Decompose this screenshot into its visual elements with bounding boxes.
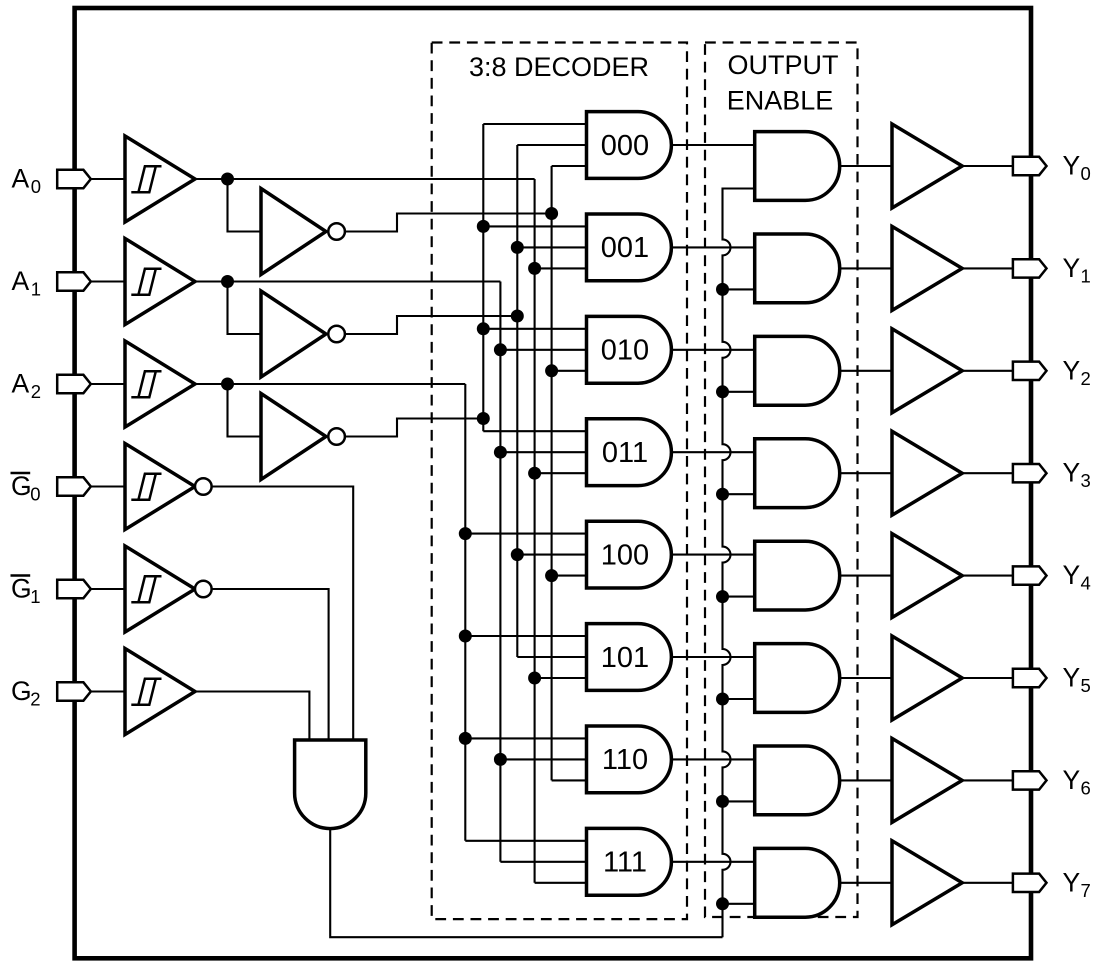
rail A2N vertical — [482, 124, 484, 431]
and-gate decoder 100 — [587, 521, 672, 588]
and-gate output-enable Y7 — [755, 848, 840, 917]
output pin Y1 — [1013, 259, 1047, 277]
wire decoder 000 output — [671, 144, 754, 146]
svg-text:011: 011 — [602, 437, 648, 469]
wire A1 schmitt output — [195, 280, 228, 282]
buffer Y6 — [892, 738, 962, 822]
wire rail A1 tap stub — [500, 349, 586, 351]
wire A0 true to rail — [228, 178, 535, 180]
and-gate output-enable Y4 — [755, 541, 840, 610]
input pin G0 — [57, 477, 91, 495]
svg-text:Y: Y — [1063, 560, 1081, 590]
wire buffer Y1 to pin — [962, 267, 1013, 269]
svg-text:Y: Y — [1063, 253, 1081, 283]
junction rail A0 — [528, 467, 541, 480]
wire enable tap to OE gate — [723, 903, 755, 905]
svg-text:5: 5 — [1081, 675, 1091, 696]
svg-text:OUTPUT: OUTPUT — [728, 50, 839, 80]
wire rail A0N bottom stub to gate — [552, 779, 587, 781]
wire decoder 101 output — [671, 656, 754, 658]
svg-text:Y: Y — [1063, 355, 1081, 385]
overbar on G0 — [11, 472, 31, 475]
wire buffer Y4 to pin — [962, 575, 1013, 577]
wire OE Y5 output — [840, 677, 892, 679]
junction enable — [716, 385, 729, 398]
schmitt buffer A2 — [125, 341, 195, 427]
svg-text:Y: Y — [1063, 867, 1081, 897]
wire input A1 pin to schmitt — [91, 280, 125, 282]
wire rail A0 tap stub — [535, 267, 587, 269]
junction rail A0 — [528, 262, 541, 275]
junction enable — [716, 283, 729, 296]
junction rail A2 — [459, 527, 472, 540]
junction rail A1N — [511, 310, 524, 323]
wire A1N inverter output — [345, 316, 517, 334]
junction enable — [716, 693, 729, 706]
wire rail A2N tap stub — [483, 225, 586, 227]
and-gate decoder 001 — [587, 214, 672, 281]
svg-text:1: 1 — [31, 279, 41, 300]
wire rail A0 tap stub — [535, 677, 587, 679]
svg-text:100: 100 — [601, 539, 649, 571]
wire OE Y1 output — [840, 267, 892, 269]
wire buffer Y0 to pin — [962, 165, 1013, 167]
output pin Y4 — [1013, 566, 1047, 584]
and-gate decoder 111 — [587, 828, 672, 895]
svg-text:A: A — [12, 369, 30, 399]
and-gate decoder 010 — [587, 316, 672, 383]
junction rail A1 — [494, 753, 507, 766]
svg-text:6: 6 — [1081, 777, 1091, 798]
wire rail A1N top stub to gate — [517, 144, 586, 146]
svg-text:111: 111 — [603, 847, 647, 879]
wire enable vertical with hops — [723, 189, 755, 938]
wire buffer Y3 to pin — [962, 472, 1013, 474]
wire A2 true to rail — [228, 383, 466, 385]
wire A0 schmitt output — [195, 178, 228, 180]
wire rail A1 tap stub — [500, 758, 586, 760]
svg-text:000: 000 — [601, 130, 649, 162]
wire decoder 110 output — [671, 758, 754, 760]
wire rail A1N bottom stub to gate — [517, 656, 586, 658]
svg-text:Y: Y — [1063, 663, 1081, 693]
junction A1 — [221, 275, 234, 288]
wire rail A2 tap stub — [465, 533, 586, 535]
junction enable — [716, 590, 729, 603]
input pin G2 — [57, 682, 91, 700]
overbar on G1 — [11, 574, 31, 577]
wire OE Y3 output — [840, 472, 892, 474]
hysteresis symbol — [131, 679, 161, 705]
and-gate output-enable Y6 — [755, 746, 840, 815]
and-gate decoder 101 — [587, 624, 672, 691]
svg-text:G: G — [11, 574, 32, 604]
wire G0 to enable AND — [212, 487, 354, 741]
and-gate enable (G0 G1 G2) — [295, 740, 366, 829]
hysteresis symbol — [131, 474, 161, 500]
wire input G2 pin to schmitt — [91, 690, 125, 692]
rail A1 vertical — [499, 282, 501, 862]
junction rail A1 — [494, 446, 507, 459]
wire rail A2 tap stub — [465, 635, 586, 637]
wire enable tap to OE gate — [723, 391, 755, 393]
buffer Y3 — [892, 431, 962, 515]
wire OE Y4 output — [840, 575, 892, 577]
wire rail A1 bottom stub to gate — [500, 861, 586, 863]
and-gate output-enable Y5 — [755, 644, 840, 713]
junction rail A0N — [545, 569, 558, 582]
junction rail A2 — [459, 630, 472, 643]
buffer Y7 — [892, 841, 962, 925]
schmitt buffer G1 — [125, 546, 195, 632]
svg-text:G: G — [11, 676, 32, 706]
wire A2N inverter output — [345, 419, 483, 437]
wire enable tap to OE gate — [723, 800, 755, 802]
wire rail A2N bottom stub to gate — [483, 430, 586, 432]
wire decoder 010 output — [671, 349, 754, 351]
wire A0 branch down to inverter — [228, 179, 262, 232]
wire OE Y7 output — [840, 882, 892, 884]
wire enable tap to OE gate — [723, 493, 755, 495]
svg-text:001: 001 — [601, 232, 649, 264]
hysteresis symbol — [131, 576, 161, 602]
rail A0N vertical — [551, 166, 553, 780]
wire input A2 pin to schmitt — [91, 383, 125, 385]
buffer Y4 — [892, 534, 962, 618]
wire rail A1N tap stub — [517, 246, 586, 248]
wire rail A2 bottom stub to gate — [465, 840, 586, 842]
svg-text:G: G — [11, 471, 32, 501]
svg-text:A: A — [12, 164, 30, 194]
and-gate decoder 110 — [587, 726, 672, 793]
inverter U3 (A2 complement) — [261, 394, 326, 480]
output pin Y3 — [1013, 464, 1047, 482]
wire rail A0 bottom stub to gate — [535, 882, 587, 884]
svg-text:2: 2 — [1081, 368, 1091, 389]
inversion bubble A1N — [328, 326, 345, 343]
schmitt buffer A0 — [125, 136, 195, 222]
svg-text:3:8 DECODER: 3:8 DECODER — [469, 52, 649, 82]
output pin Y6 — [1013, 771, 1047, 789]
wire decoder 011 output — [671, 451, 754, 453]
output pin Y2 — [1013, 362, 1047, 380]
and-gate decoder 000 — [587, 112, 672, 179]
inversion bubble A2N — [328, 428, 345, 445]
junction rail A2N — [477, 220, 490, 233]
junction rail A1 — [494, 343, 507, 356]
junction rail A0N — [545, 364, 558, 377]
wire A1 branch down to inverter — [228, 282, 262, 335]
wire A1 true to rail — [228, 280, 501, 282]
svg-text:2: 2 — [30, 689, 40, 710]
buffer Y2 — [892, 329, 962, 413]
svg-text:1: 1 — [1081, 265, 1091, 286]
wire rail A2 tap stub — [465, 737, 586, 739]
buffer Y1 — [892, 226, 962, 310]
wire rail A0N tap stub — [552, 575, 587, 577]
wire rail A2N tap stub — [483, 328, 586, 330]
junction A0 — [221, 173, 234, 186]
wire input G0 pin to schmitt — [91, 485, 125, 487]
wire rail A0 tap stub — [535, 472, 587, 474]
wire rail A2N top stub to gate — [483, 123, 586, 125]
rail A2 vertical — [464, 384, 466, 841]
junction enable — [716, 897, 729, 910]
svg-text:7: 7 — [1081, 880, 1091, 901]
wire decoder 100 output — [671, 554, 754, 556]
and-gate output-enable Y2 — [755, 336, 840, 405]
svg-text:0: 0 — [31, 176, 41, 197]
svg-text:3: 3 — [1081, 470, 1091, 491]
wire decoder 001 output — [671, 246, 754, 248]
junction rail A0 — [528, 672, 541, 685]
dashed box 3:8 DECODER — [432, 43, 687, 920]
buffer Y5 — [892, 636, 962, 720]
inversion bubble G0 — [195, 478, 212, 495]
junction rail A0N — [545, 207, 558, 220]
wire rail A1 tap stub — [500, 451, 586, 453]
rail A0 vertical — [534, 179, 536, 883]
wire rail A0N top stub to gate — [552, 165, 587, 167]
wire buffer Y5 to pin — [962, 677, 1013, 679]
junction A2 — [221, 378, 234, 391]
wire rail A0N tap stub — [552, 370, 587, 372]
wire enable tap to OE gate — [723, 596, 755, 598]
svg-text:Y: Y — [1063, 151, 1081, 181]
svg-text:110: 110 — [602, 744, 648, 776]
schmitt buffer G0 — [125, 444, 195, 530]
junction rail A1N — [511, 548, 524, 561]
junction rail A2N — [477, 322, 490, 335]
hysteresis symbol — [131, 166, 161, 192]
wire A2 schmitt output — [195, 383, 228, 385]
svg-text:2: 2 — [31, 381, 41, 402]
and-gate decoder 011 — [587, 419, 672, 486]
svg-text:A: A — [12, 266, 30, 296]
wire enable tap to OE gate — [723, 698, 755, 700]
wire G2 to enable AND — [195, 692, 309, 741]
inverter U2 (A1 complement) — [261, 291, 326, 377]
wire buffer Y7 to pin — [962, 882, 1013, 884]
input pin A2 — [57, 375, 91, 393]
junction enable — [716, 795, 729, 808]
svg-text:0: 0 — [1081, 163, 1091, 184]
wire buffer Y6 to pin — [962, 779, 1013, 781]
hysteresis symbol — [131, 371, 161, 397]
svg-text:4: 4 — [1081, 573, 1091, 594]
output pin Y0 — [1013, 157, 1047, 175]
output pin Y5 — [1013, 669, 1047, 687]
wire OE Y2 output — [840, 370, 892, 372]
input pin A1 — [57, 272, 91, 290]
svg-text:ENABLE: ENABLE — [727, 86, 834, 116]
input pin A0 — [57, 170, 91, 188]
inversion bubble A0N — [328, 223, 345, 240]
wire enable AND output — [330, 829, 722, 938]
wire A2 branch down to inverter — [228, 384, 262, 437]
output pin Y7 — [1013, 874, 1047, 892]
and-gate output-enable Y1 — [755, 234, 840, 303]
junction rail A1N — [511, 241, 524, 254]
inversion bubble G1 — [195, 581, 212, 598]
wire enable tap to OE gate — [723, 288, 755, 290]
svg-text:0: 0 — [30, 484, 40, 505]
svg-text:101: 101 — [601, 642, 649, 674]
svg-text:010: 010 — [601, 335, 649, 367]
junction rail A2 — [459, 732, 472, 745]
inverter U1 (A0 complement) — [261, 189, 326, 275]
dashed box OUTPUT ENABLE — [705, 43, 858, 918]
and-gate output-enable Y3 — [755, 439, 840, 508]
wire decoder 111 output — [671, 861, 754, 863]
junction rail A2N — [477, 412, 490, 425]
rail A1N vertical — [516, 145, 518, 657]
wire G1 to enable AND — [212, 589, 329, 740]
hysteresis symbol — [131, 269, 161, 295]
schmitt buffer G2 — [125, 649, 195, 735]
wire input G1 pin to schmitt — [91, 588, 125, 590]
wire rail A1N tap stub — [517, 554, 586, 556]
wire OE Y0 output — [840, 165, 892, 167]
svg-text:1: 1 — [30, 586, 40, 607]
wire OE Y6 output — [840, 779, 892, 781]
schmitt buffer A1 — [125, 239, 195, 325]
wire buffer Y2 to pin — [962, 370, 1013, 372]
wire input A0 pin to schmitt — [91, 178, 125, 180]
junction enable — [716, 488, 729, 501]
svg-text:Y: Y — [1063, 458, 1081, 488]
and-gate output-enable Y0 — [755, 132, 840, 201]
svg-text:Y: Y — [1063, 765, 1081, 795]
wire A0N inverter output — [345, 214, 552, 232]
buffer Y0 — [892, 124, 962, 208]
input pin G1 — [57, 580, 91, 598]
